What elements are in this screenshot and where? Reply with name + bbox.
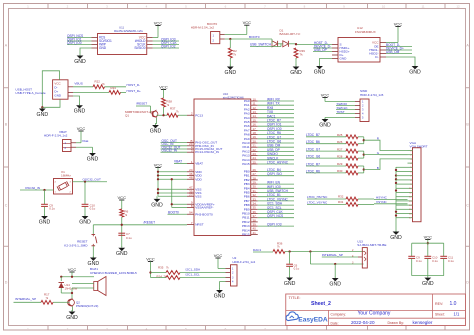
- svg-text:D: D: [5, 280, 8, 284]
- svg-text:7k: 7k: [277, 246, 280, 249]
- svg-text:VBAT: VBAT: [174, 160, 182, 164]
- svg-text:VBUS: VBUS: [74, 81, 82, 85]
- svg-text:R22: R22: [95, 79, 101, 83]
- svg-text:10: 10: [382, 5, 386, 9]
- svg-text:LTDC_HSYNC: LTDC_HSYNC: [307, 195, 328, 199]
- svg-text:A: A: [5, 43, 8, 47]
- svg-text:0.1u: 0.1u: [49, 207, 55, 211]
- svg-text:VCC: VCC: [68, 267, 77, 272]
- svg-text:HDR-F-2.54_1x2: HDR-F-2.54_1x2: [44, 134, 68, 138]
- svg-text:Your Company: Your Company: [358, 311, 391, 317]
- svg-text:4: 4: [232, 281, 234, 284]
- svg-text:RH25L32WEMD-12G: RH25L32WEMD-12G: [114, 29, 144, 33]
- svg-text:3: 3: [232, 277, 234, 280]
- svg-text:GND: GND: [214, 293, 226, 299]
- svg-text:R31: R31: [338, 200, 344, 204]
- svg-text:2022-04-20: 2022-04-20: [351, 320, 375, 325]
- svg-text:GND: GND: [329, 281, 341, 287]
- svg-text:LTDC_HSYNC: LTDC_HSYNC: [267, 161, 289, 165]
- svg-text:QSPI_IO0: QSPI_IO0: [67, 41, 82, 45]
- svg-text:GND: GND: [319, 122, 331, 128]
- svg-text:Sheet_2: Sheet_2: [311, 301, 331, 307]
- svg-text:I2C1_SCL: I2C1_SCL: [186, 273, 201, 277]
- svg-text:R32: R32: [338, 195, 344, 199]
- svg-text:VDD: VDD: [195, 177, 202, 181]
- svg-text:TITLE:: TITLE:: [289, 295, 301, 300]
- svg-text:7: 7: [264, 5, 266, 9]
- svg-text:Q1: Q1: [125, 114, 129, 118]
- svg-text:48: 48: [189, 176, 193, 180]
- svg-text:HDR-F-2.54_1x5: HDR-F-2.54_1x5: [360, 93, 384, 97]
- svg-text:PC13: PC13: [195, 113, 203, 117]
- svg-text:R30: R30: [337, 169, 343, 173]
- svg-text:0.1u: 0.1u: [294, 267, 300, 271]
- svg-text:GND: GND: [79, 219, 91, 225]
- svg-text:PA15: PA15: [242, 162, 250, 166]
- svg-text:GND: GND: [88, 261, 100, 267]
- svg-text:kensegler: kensegler: [413, 320, 433, 325]
- svg-text:QSPI_SIO: QSPI_SIO: [267, 172, 282, 176]
- svg-text:C: C: [466, 203, 469, 207]
- svg-text:R26: R26: [337, 140, 343, 144]
- svg-text:7k: 7k: [176, 110, 179, 113]
- svg-text:R29: R29: [337, 162, 343, 166]
- svg-text:GND: GND: [74, 59, 86, 65]
- svg-text:PN3904(SOT-23): PN3904(SOT-23): [76, 304, 98, 308]
- svg-text:5: 5: [362, 116, 364, 120]
- svg-text:GND: GND: [150, 128, 162, 134]
- svg-text:OSC32_IN: OSC32_IN: [162, 149, 178, 153]
- svg-text:GND: GND: [284, 281, 296, 287]
- svg-text:R27: R27: [337, 147, 343, 151]
- svg-text:PH3-BOOT0: PH3-BOOT0: [195, 212, 213, 216]
- svg-text:VCC: VCC: [154, 162, 163, 167]
- svg-text:0.1u: 0.1u: [432, 259, 438, 263]
- svg-text:7k: 7k: [300, 53, 304, 57]
- svg-text:GND: GND: [66, 315, 78, 321]
- svg-text:INTERNAL_SP: INTERNAL_SP: [15, 297, 36, 301]
- svg-text:2: 2: [232, 272, 234, 275]
- svg-text:7k: 7k: [102, 83, 105, 86]
- svg-text:GND: GND: [37, 112, 49, 118]
- svg-text:INTERNAL_SP: INTERNAL_SP: [322, 253, 343, 257]
- svg-text:GND: GND: [116, 251, 128, 257]
- svg-text:VCC: VCC: [243, 20, 252, 25]
- svg-text:SI/SIO0: SI/SIO0: [134, 46, 145, 50]
- svg-text:OSC32_IN: OSC32_IN: [25, 186, 40, 190]
- svg-text:1: 1: [55, 191, 57, 193]
- svg-text:2: 2: [213, 39, 215, 43]
- svg-text:FSUSB30MUX: FSUSB30MUX: [355, 30, 376, 34]
- svg-text:12: 12: [456, 5, 460, 9]
- svg-text:GND: GND: [390, 235, 402, 241]
- svg-text:GND: GND: [87, 156, 99, 162]
- svg-text:/RESET: /RESET: [136, 102, 147, 106]
- svg-text:1: 1: [27, 5, 29, 9]
- svg-text:VCC: VCC: [118, 195, 127, 200]
- svg-text:PB15: PB15: [242, 233, 250, 237]
- svg-text:Drawn By:: Drawn By:: [388, 321, 405, 325]
- svg-text:QSPI_IO2: QSPI_IO2: [161, 44, 176, 48]
- svg-text:HSYNC: HSYNC: [376, 196, 388, 200]
- svg-text:25: 25: [252, 160, 256, 164]
- svg-text:BOOT0: BOOT0: [249, 35, 260, 39]
- svg-text:0.1u: 0.1u: [416, 259, 422, 263]
- svg-text:Vbat: Vbat: [82, 139, 89, 143]
- svg-text:VCC: VCC: [321, 92, 330, 97]
- svg-text:USB_DP: USB_DP: [314, 48, 327, 52]
- svg-text:Company:: Company:: [331, 312, 347, 316]
- svg-text:C: C: [5, 203, 8, 207]
- svg-text:EasyEDA: EasyEDA: [298, 316, 328, 323]
- svg-text:3: 3: [106, 5, 108, 9]
- svg-text:4: 4: [362, 112, 364, 116]
- svg-text:2: 2: [67, 5, 69, 9]
- svg-text:0.1u: 0.1u: [126, 236, 132, 240]
- svg-text:A: A: [466, 43, 469, 47]
- svg-text:1: 1: [362, 100, 364, 104]
- svg-text:R14: R14: [157, 275, 163, 279]
- svg-text:7k: 7k: [166, 266, 169, 269]
- svg-text:VCC: VCC: [159, 84, 168, 89]
- svg-text:D: D: [466, 280, 469, 284]
- svg-text:R37: R37: [170, 107, 176, 111]
- svg-text:4: 4: [146, 5, 148, 9]
- svg-text:94: 94: [189, 211, 193, 215]
- svg-text:R24: R24: [111, 86, 117, 90]
- svg-text:GND: GND: [290, 70, 302, 76]
- svg-text:7k: 7k: [233, 53, 237, 57]
- svg-text:MMBT3904/SOT-23: MMBT3904/SOT-23: [125, 110, 153, 114]
- svg-text:B: B: [466, 122, 469, 126]
- svg-text:GND: GND: [340, 57, 348, 61]
- svg-text:7k: 7k: [46, 297, 49, 300]
- svg-text:0.1u: 0.1u: [448, 259, 454, 263]
- svg-text:4: 4: [55, 181, 57, 183]
- svg-text:USB-TYPE A_Female: USB-TYPE A_Female: [15, 91, 46, 95]
- svg-text:Date:: Date:: [331, 321, 339, 325]
- svg-text:QSPI_NCS: QSPI_NCS: [267, 214, 283, 218]
- svg-text:BAS40-06T-7-F: BAS40-06T-7-F: [280, 32, 301, 36]
- svg-text:USB_SWITCH: USB_SWITCH: [250, 42, 272, 46]
- svg-text:USB_DM: USB_DM: [386, 50, 400, 54]
- svg-text:1: 1: [232, 268, 234, 271]
- svg-text:HOST_D-: HOST_D-: [127, 83, 141, 87]
- svg-text:HDR-F-2.54_1x4: HDR-F-2.54_1x4: [233, 260, 256, 264]
- svg-text:R25: R25: [337, 133, 343, 137]
- svg-text:1: 1: [213, 34, 215, 38]
- svg-text:8: 8: [304, 5, 306, 9]
- svg-text:VSSA/VREF-: VSSA/VREF-: [195, 206, 213, 210]
- svg-text:LTDC_VSYNC: LTDC_VSYNC: [307, 200, 328, 204]
- svg-text:BOOT0: BOOT0: [168, 210, 179, 214]
- svg-text:Sheet:: Sheet:: [435, 312, 445, 316]
- svg-text:9: 9: [343, 5, 345, 9]
- svg-text:GND: GND: [99, 46, 107, 50]
- svg-text:VBAT: VBAT: [195, 162, 203, 166]
- svg-text:3: 3: [362, 108, 364, 112]
- svg-text:K2-3.6*6.1_SMD: K2-3.6*6.1_SMD: [64, 243, 88, 247]
- svg-text:3: 3: [70, 181, 72, 183]
- svg-text:GND: GND: [39, 219, 51, 225]
- svg-text:GND: GND: [74, 109, 86, 115]
- svg-text:GND: GND: [409, 69, 421, 75]
- svg-text:stm32f407IGH6: stm32f407IGH6: [223, 96, 244, 100]
- svg-text:QSPI_IO3: QSPI_IO3: [267, 223, 282, 227]
- svg-text:VCC: VCC: [214, 253, 223, 258]
- svg-text:B: B: [377, 166, 379, 170]
- svg-text:VCC: VCC: [146, 256, 155, 261]
- svg-text:NRST: NRST: [195, 223, 204, 227]
- svg-text:23: 23: [189, 193, 193, 197]
- svg-text:41: 41: [252, 231, 256, 235]
- svg-text:R28: R28: [337, 154, 343, 158]
- svg-text:B: B: [5, 122, 8, 126]
- svg-text:R35: R35: [158, 265, 164, 269]
- svg-text:D-: D-: [375, 55, 378, 59]
- svg-text:16MHz: 16MHz: [61, 174, 71, 178]
- svg-text:VCC: VCC: [154, 20, 163, 25]
- svg-text:11: 11: [421, 5, 424, 9]
- svg-text:VCC: VCC: [394, 21, 403, 26]
- svg-text:GND: GND: [54, 94, 62, 98]
- svg-text:GND: GND: [422, 281, 434, 287]
- svg-text:1.0: 1.0: [450, 301, 457, 307]
- svg-text:HOST_D+: HOST_D+: [127, 89, 142, 93]
- svg-text:0.1u: 0.1u: [90, 207, 96, 211]
- svg-text:REV:: REV:: [435, 302, 443, 306]
- svg-text:6: 6: [225, 5, 227, 9]
- svg-text:I2C1_SDA: I2C1_SDA: [186, 267, 202, 271]
- svg-text:5: 5: [185, 5, 187, 9]
- svg-text:CHENZUI BUZZER_12X9.5RML5: CHENZUI BUZZER_12X9.5RML5: [90, 271, 137, 275]
- svg-text:DAC1: DAC1: [253, 248, 262, 252]
- svg-text:GND: GND: [151, 202, 163, 208]
- svg-text:/RESET: /RESET: [144, 221, 156, 225]
- svg-text:2: 2: [70, 191, 72, 193]
- svg-text:VCC: VCC: [424, 234, 433, 239]
- svg-text:7k: 7k: [125, 214, 128, 217]
- svg-text:PC14-OSC32_IN: PC14-OSC32_IN: [195, 150, 219, 154]
- svg-text:HDR-M-2.54_1x2: HDR-M-2.54_1x2: [191, 25, 215, 29]
- svg-text:GND: GND: [225, 70, 237, 76]
- svg-text:VSS: VSS: [195, 194, 201, 198]
- svg-text:2: 2: [362, 104, 364, 108]
- svg-text:1/1: 1/1: [454, 311, 460, 316]
- svg-text:SJ-3524-SMT-TR-BE: SJ-3524-SMT-TR-BE: [357, 243, 386, 247]
- svg-text:VCC: VCC: [77, 126, 86, 131]
- svg-text:GND: GND: [314, 69, 326, 75]
- svg-text:TRST: TRST: [337, 110, 345, 114]
